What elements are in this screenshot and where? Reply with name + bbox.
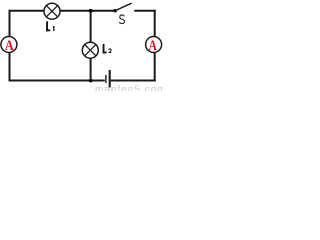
- wire left upper: [9, 10, 11, 37]
- svg-text:manfen5.com: manfen5.com: [95, 84, 163, 91]
- wire top-middle segment: [60, 10, 115, 12]
- battery B1: [106, 70, 110, 87]
- ammeter A1: [1, 37, 17, 55]
- label S: [119, 15, 124, 24]
- lamp L1: [44, 3, 60, 19]
- wire right lower: [154, 52, 156, 81]
- wire middle branch upper: [90, 11, 92, 43]
- label L1: [46, 21, 54, 31]
- wire right upper: [154, 10, 156, 37]
- node top junction: [89, 9, 93, 13]
- wire left lower: [9, 52, 11, 81]
- wire top-right segment: [134, 10, 155, 12]
- lamp L2: [82, 42, 98, 58]
- wire bottom-right segment: [111, 80, 156, 82]
- wire top-left segment: [9, 10, 45, 12]
- wire middle branch lower: [90, 58, 92, 81]
- svg-text:A: A: [5, 38, 14, 54]
- wire bottom-left segment: [9, 80, 105, 82]
- svg-text:A: A: [149, 38, 157, 54]
- node bottom junction: [89, 79, 93, 83]
- label L2: [103, 44, 112, 53]
- ammeter A2: [146, 37, 162, 55]
- switch S: [114, 3, 132, 12]
